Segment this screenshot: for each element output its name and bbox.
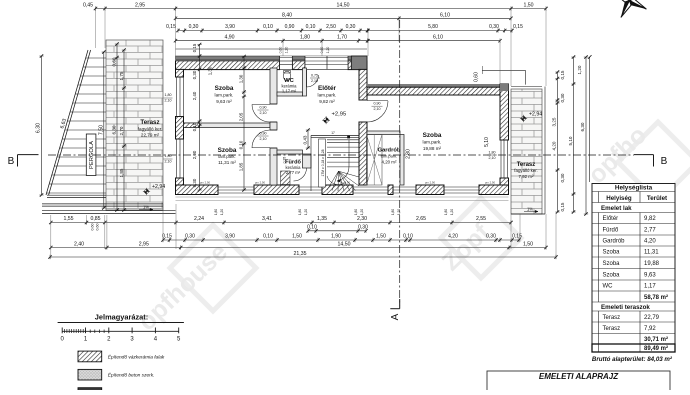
svg-text:9,63 m²: 9,63 m² bbox=[216, 99, 232, 104]
svg-text:6,30: 6,30 bbox=[112, 125, 117, 134]
svg-text:Jelmagyarázat:: Jelmagyarázat: bbox=[95, 313, 148, 322]
svg-text:2,77 m²: 2,77 m² bbox=[286, 170, 301, 175]
inner wall x359 (Elotér/east block) bbox=[359, 69, 367, 100]
svg-text:pm 2,90: pm 2,90 bbox=[200, 181, 211, 185]
svg-text:0,85: 0,85 bbox=[90, 216, 100, 222]
section B line bbox=[48, 154, 634, 156]
svg-text:19,88: 19,88 bbox=[644, 261, 660, 267]
svg-text:0,60: 0,60 bbox=[474, 72, 480, 82]
svg-text:4,20 m²: 4,20 m² bbox=[382, 160, 397, 165]
svg-text:1,35: 1,35 bbox=[317, 216, 327, 222]
svg-text:1,80: 1,80 bbox=[444, 209, 448, 215]
svg-text:1,20: 1,20 bbox=[304, 209, 308, 215]
svg-text:Terület: Terület bbox=[647, 195, 667, 202]
svg-text:0,90: 0,90 bbox=[260, 106, 267, 110]
east wall top corner block bbox=[500, 84, 509, 91]
partition vertical x270 bbox=[270, 68, 277, 104]
pergola diagonal frame bbox=[46, 50, 88, 195]
svg-text:3,41: 3,41 bbox=[262, 216, 272, 222]
svg-text:WC: WC bbox=[603, 284, 614, 290]
svg-text:1,50: 1,50 bbox=[523, 3, 533, 9]
svg-text:Szoba: Szoba bbox=[603, 261, 621, 267]
svg-text:5,10: 5,10 bbox=[568, 136, 573, 145]
svg-text:1,20: 1,20 bbox=[360, 209, 364, 215]
svg-text:30,71 m²: 30,71 m² bbox=[644, 336, 668, 343]
svg-text:1%: 1% bbox=[143, 205, 149, 210]
svg-text:1,85: 1,85 bbox=[239, 162, 244, 171]
svg-text:9,63: 9,63 bbox=[644, 272, 656, 278]
svg-text:0,45: 0,45 bbox=[83, 3, 93, 9]
svg-text:1,50: 1,50 bbox=[292, 233, 302, 239]
svg-text:0,10: 0,10 bbox=[263, 233, 273, 239]
svg-text:0,90: 0,90 bbox=[260, 132, 267, 136]
svg-text:1,17: 1,17 bbox=[644, 284, 656, 290]
svg-text:0,60: 0,60 bbox=[96, 224, 100, 231]
svg-text:4,20: 4,20 bbox=[644, 239, 656, 245]
svg-text:1,80: 1,80 bbox=[489, 151, 496, 155]
svg-text:1,20: 1,20 bbox=[285, 47, 289, 54]
north wall corner dark block bbox=[351, 56, 367, 70]
bottom dim row 2 bbox=[308, 230, 366, 232]
svg-text:lam.park.: lam.park. bbox=[318, 93, 337, 98]
partition szoba/szoba bbox=[184, 123, 271, 128]
svg-text:0,10: 0,10 bbox=[403, 233, 413, 239]
stair fan bbox=[327, 171, 339, 190]
top dim row 3 bbox=[178, 30, 368, 32]
top dim row 1 bbox=[96, 8, 547, 10]
svg-text:0,30: 0,30 bbox=[185, 233, 195, 239]
svg-text:3,25: 3,25 bbox=[552, 117, 557, 126]
interior chains left bbox=[199, 45, 201, 191]
svg-text:2,10: 2,10 bbox=[165, 160, 172, 164]
svg-text:17: 17 bbox=[331, 131, 335, 135]
bottom dim row 3 bbox=[163, 239, 519, 241]
svg-text:1,75: 1,75 bbox=[119, 71, 124, 80]
svg-text:Emelet lak: Emelet lak bbox=[601, 205, 632, 212]
svg-text:21,35: 21,35 bbox=[294, 251, 307, 257]
svg-text:+2,95: +2,95 bbox=[332, 112, 347, 118]
top dim row 2 bbox=[176, 17, 512, 19]
svg-text:Építendő vázkerámia falak: Építendő vázkerámia falak bbox=[108, 353, 165, 360]
svg-text:Szoba: Szoba bbox=[603, 272, 621, 278]
svg-text:2,40: 2,40 bbox=[74, 241, 84, 247]
dim 7,50 chain bbox=[103, 52, 105, 208]
svg-text:2,30: 2,30 bbox=[357, 216, 367, 222]
svg-text:1,20: 1,20 bbox=[326, 47, 330, 54]
svg-text:22,79: 22,79 bbox=[644, 315, 660, 321]
svg-text:2,10: 2,10 bbox=[311, 79, 318, 83]
svg-text:0,75: 0,75 bbox=[311, 74, 318, 78]
svg-text:0,30: 0,30 bbox=[486, 233, 496, 239]
svg-text:1,80: 1,80 bbox=[214, 209, 218, 215]
svg-text:0,15: 0,15 bbox=[162, 233, 172, 239]
right dim chain A x557.5 bbox=[557, 72, 559, 212]
terrace east brick floor bbox=[511, 89, 542, 214]
svg-text:2,10: 2,10 bbox=[260, 137, 267, 141]
legend item 3 dark bbox=[78, 388, 102, 395]
fürdő door bbox=[294, 168, 307, 181]
svg-text:pm 2,90: pm 2,90 bbox=[485, 181, 496, 185]
svg-text:0,30: 0,30 bbox=[358, 225, 368, 231]
svg-text:19,88 m²: 19,88 m² bbox=[423, 146, 442, 151]
legend item 2 concrete bbox=[78, 369, 102, 380]
svg-text:0,15: 0,15 bbox=[560, 70, 565, 79]
svg-text:0,15: 0,15 bbox=[560, 202, 565, 211]
dim 6,30 left chain bbox=[41, 56, 43, 195]
svg-text:Szoba: Szoba bbox=[218, 147, 237, 154]
top dim row 4 bbox=[176, 40, 368, 42]
svg-text:Helyiség: Helyiség bbox=[606, 195, 632, 202]
right dim chain C x586 bbox=[585, 57, 587, 214]
svg-text:1,50: 1,50 bbox=[376, 233, 386, 239]
svg-text:0,15: 0,15 bbox=[166, 24, 176, 30]
Gardrób bbox=[367, 131, 400, 135]
east wall bbox=[500, 84, 509, 140]
svg-text:Terasz: Terasz bbox=[603, 326, 621, 332]
svg-text:1,20: 1,20 bbox=[450, 209, 454, 215]
svg-text:1,70: 1,70 bbox=[337, 35, 347, 41]
svg-text:3,90: 3,90 bbox=[225, 24, 235, 30]
svg-text:4,20: 4,20 bbox=[552, 141, 557, 150]
east block north wall dark band bbox=[367, 84, 509, 87]
svg-text:1,80: 1,80 bbox=[165, 93, 172, 97]
svg-text:0,15: 0,15 bbox=[512, 233, 522, 239]
svg-text:lam.park.: lam.park. bbox=[423, 140, 442, 145]
svg-text:0,15: 0,15 bbox=[513, 24, 523, 30]
svg-text:58,78 m²: 58,78 m² bbox=[644, 294, 668, 301]
north arrow bbox=[604, 0, 655, 26]
svg-text:fagyálló ker.: fagyálló ker. bbox=[514, 168, 537, 173]
right dim chain B x573.5 bbox=[573, 57, 575, 212]
doors in x270 wall bbox=[270, 103, 277, 105]
svg-text:Terasz: Terasz bbox=[603, 315, 621, 321]
svg-text:0,60: 0,60 bbox=[112, 57, 117, 66]
svg-text:6,30: 6,30 bbox=[580, 122, 585, 131]
section A line bbox=[399, 20, 401, 305]
svg-text:22,79 m²: 22,79 m² bbox=[141, 133, 160, 138]
bottom dim row 1 bbox=[51, 222, 511, 224]
eaves line west block bbox=[176, 48, 368, 50]
west wall windows bbox=[176, 77, 178, 117]
svg-text:2,50: 2,50 bbox=[326, 24, 336, 30]
svg-text:0,10: 0,10 bbox=[307, 225, 317, 231]
svg-text:0,43: 0,43 bbox=[303, 135, 308, 144]
svg-text:EMELETI ALAPRAJZ: EMELETI ALAPRAJZ bbox=[539, 372, 619, 381]
svg-text:0,15: 0,15 bbox=[192, 43, 197, 52]
svg-text:6,10: 6,10 bbox=[440, 12, 450, 18]
terrace dim chain x117 bbox=[116, 44, 118, 210]
svg-text:1,80: 1,80 bbox=[354, 209, 358, 215]
svg-text:1,17 m²: 1,17 m² bbox=[282, 88, 297, 93]
svg-text:Helységlista: Helységlista bbox=[615, 185, 653, 192]
svg-text:fagyálló ker.: fagyálló ker. bbox=[138, 127, 163, 132]
stairs bbox=[311, 135, 359, 137]
right chain D bbox=[589, 57, 591, 182]
svg-text:0,30: 0,30 bbox=[489, 24, 499, 30]
svg-text:0,10: 0,10 bbox=[239, 140, 244, 149]
watermark diamonds and text bbox=[170, 122, 690, 311]
svg-text:1,20: 1,20 bbox=[577, 65, 582, 74]
svg-text:Szoba: Szoba bbox=[215, 85, 234, 92]
svg-text:2,80: 2,80 bbox=[406, 149, 412, 159]
svg-text:14,50: 14,50 bbox=[338, 241, 351, 247]
Fürdő room bbox=[277, 150, 303, 154]
svg-text:0,30: 0,30 bbox=[560, 173, 565, 182]
WC fixture bbox=[283, 71, 290, 81]
wardrobe symbol bbox=[367, 135, 383, 186]
svg-text:2,10: 2,10 bbox=[260, 111, 267, 115]
svg-text:Bruttó alapterület: 84,03 m²: Bruttó alapterület: 84,03 m² bbox=[592, 356, 673, 363]
svg-text:1,80: 1,80 bbox=[298, 209, 302, 215]
svg-text:2,65: 2,65 bbox=[416, 216, 426, 222]
svg-text:89,49 m²: 89,49 m² bbox=[644, 345, 668, 352]
terrace bottom edge bbox=[42, 203, 163, 205]
svg-text:1,85: 1,85 bbox=[119, 168, 124, 177]
svg-text:1,30: 1,30 bbox=[239, 74, 244, 83]
north wall windows bbox=[280, 56, 293, 70]
bottom dim row 4 bbox=[51, 247, 546, 249]
svg-text:11,31 m²: 11,31 m² bbox=[218, 160, 236, 165]
svg-text:8,40: 8,40 bbox=[282, 12, 292, 18]
WC door bbox=[306, 70, 308, 87]
svg-text:1,80: 1,80 bbox=[300, 35, 310, 41]
terrace dim chain x124 bbox=[123, 50, 125, 210]
svg-text:Szoba: Szoba bbox=[423, 132, 442, 139]
svg-text:6,10: 6,10 bbox=[433, 35, 443, 41]
svg-text:5,80: 5,80 bbox=[428, 24, 438, 30]
door gap in x359 wall bbox=[359, 99, 367, 101]
svg-text:11,31: 11,31 bbox=[644, 250, 659, 256]
svg-text:1,20: 1,20 bbox=[397, 209, 401, 215]
svg-text:pm 2,90: pm 2,90 bbox=[425, 181, 436, 185]
east block north wall hatch bbox=[367, 87, 509, 95]
svg-text:7,92 m²: 7,92 m² bbox=[519, 174, 534, 179]
svg-text:Fürdő: Fürdő bbox=[603, 227, 619, 233]
svg-text:+2,94: +2,94 bbox=[152, 184, 165, 190]
legend item 1 hatch bbox=[78, 351, 102, 362]
svg-text:0,90: 0,90 bbox=[285, 24, 295, 30]
bottom dim row 5 bbox=[50, 256, 556, 258]
south sill lines bbox=[176, 196, 509, 198]
pergola label box bbox=[86, 134, 96, 176]
pergola rungs bbox=[86, 57, 106, 59]
svg-text:3,90: 3,90 bbox=[225, 233, 235, 239]
svg-text:14,50: 14,50 bbox=[337, 3, 350, 9]
svg-text:2,40: 2,40 bbox=[192, 91, 197, 100]
svg-text:0,30: 0,30 bbox=[560, 93, 565, 102]
door arc into east block bbox=[367, 101, 388, 122]
svg-text:lam.park.: lam.park. bbox=[215, 93, 234, 98]
svg-text:0,10: 0,10 bbox=[306, 24, 316, 30]
svg-text:Előtér: Előtér bbox=[603, 216, 619, 222]
B marker right bbox=[653, 155, 655, 167]
svg-text:0,60: 0,60 bbox=[91, 224, 95, 231]
svg-text:17M x 0,18 x 0,28: 17M x 0,18 x 0,28 bbox=[321, 149, 325, 176]
svg-text:pm 2,90: pm 2,90 bbox=[255, 181, 266, 185]
svg-text:6,30: 6,30 bbox=[35, 123, 41, 133]
svg-text:9,82: 9,82 bbox=[644, 216, 656, 222]
svg-text:0,30: 0,30 bbox=[192, 70, 197, 79]
B marker left bbox=[17, 155, 19, 167]
svg-text:1,55: 1,55 bbox=[63, 216, 73, 222]
svg-text:1,20: 1,20 bbox=[220, 209, 224, 215]
svg-text:2,55: 2,55 bbox=[476, 216, 486, 222]
walk line bbox=[347, 136, 350, 139]
svg-text:2,70: 2,70 bbox=[119, 126, 124, 135]
svg-text:Előtér: Előtér bbox=[318, 85, 337, 92]
east terrace eaves bbox=[511, 86, 542, 88]
terrace west brick floor bbox=[106, 40, 163, 210]
shower hatch bbox=[281, 171, 291, 185]
east wall door bbox=[500, 140, 502, 178]
svg-text:1,80: 1,80 bbox=[165, 154, 172, 158]
helységlista table bbox=[592, 184, 675, 353]
svg-text:0,60: 0,60 bbox=[279, 47, 283, 54]
svg-text:1,90: 1,90 bbox=[331, 233, 341, 239]
svg-text:A: A bbox=[390, 313, 401, 320]
scale bar bbox=[62, 330, 179, 332]
svg-text:0,30: 0,30 bbox=[192, 178, 197, 187]
svg-text:9,82 m²: 9,82 m² bbox=[319, 99, 335, 104]
svg-text:1%: 1% bbox=[527, 207, 533, 212]
title box bbox=[487, 371, 670, 392]
svg-text:4,90: 4,90 bbox=[224, 35, 234, 41]
east roof overhang outline bbox=[482, 69, 525, 71]
svg-text:7,50: 7,50 bbox=[99, 125, 105, 135]
WC room bbox=[277, 92, 303, 96]
svg-text:B: B bbox=[8, 156, 15, 167]
svg-text:1,30: 1,30 bbox=[208, 66, 213, 75]
west wall bbox=[176, 69, 184, 77]
svg-text:4,20: 4,20 bbox=[448, 233, 458, 239]
north wall west block: dark band bbox=[176, 56, 368, 60]
svg-text:2,77: 2,77 bbox=[644, 227, 656, 233]
north wall west block hatch bbox=[176, 61, 280, 70]
svg-text:2,10: 2,10 bbox=[374, 107, 381, 111]
south wall bbox=[176, 185, 219, 195]
pergola bottom beam bbox=[47, 194, 106, 196]
svg-text:0,10: 0,10 bbox=[192, 122, 197, 131]
svg-text:0,10: 0,10 bbox=[263, 24, 273, 30]
svg-text:2,95: 2,95 bbox=[139, 241, 149, 247]
svg-text:Terasz: Terasz bbox=[140, 119, 159, 126]
svg-text:2,10: 2,10 bbox=[489, 156, 496, 160]
svg-text:0,30: 0,30 bbox=[189, 24, 199, 30]
svg-text:Szoba: Szoba bbox=[603, 250, 621, 256]
svg-text:7,92: 7,92 bbox=[644, 326, 656, 332]
svg-text:Építendő beton szerk.: Építendő beton szerk. bbox=[108, 372, 155, 379]
svg-text:2,24: 2,24 bbox=[194, 216, 204, 222]
svg-text:1,50: 1,50 bbox=[523, 241, 533, 247]
svg-text:1,80: 1,80 bbox=[391, 209, 395, 215]
bottom extension lines bbox=[50, 215, 52, 259]
svg-text:0,30: 0,30 bbox=[346, 24, 356, 30]
svg-text:Gardrób: Gardrób bbox=[603, 239, 626, 245]
svg-text:0,90: 0,90 bbox=[374, 102, 381, 106]
svg-text:+2,94: +2,94 bbox=[529, 112, 542, 118]
top extension lines bbox=[95, 10, 97, 48]
svg-text:B: B bbox=[661, 156, 668, 167]
svg-text:2,05: 2,05 bbox=[239, 112, 244, 121]
svg-text:töm.park.: töm.park. bbox=[381, 154, 398, 159]
svg-text:Emeleti teraszok: Emeleti teraszok bbox=[601, 304, 650, 311]
svg-text:5,10: 5,10 bbox=[484, 137, 490, 147]
south wall windows bbox=[218, 186, 254, 188]
svg-text:2,95: 2,95 bbox=[135, 3, 145, 9]
svg-text:2,10: 2,10 bbox=[165, 99, 172, 103]
